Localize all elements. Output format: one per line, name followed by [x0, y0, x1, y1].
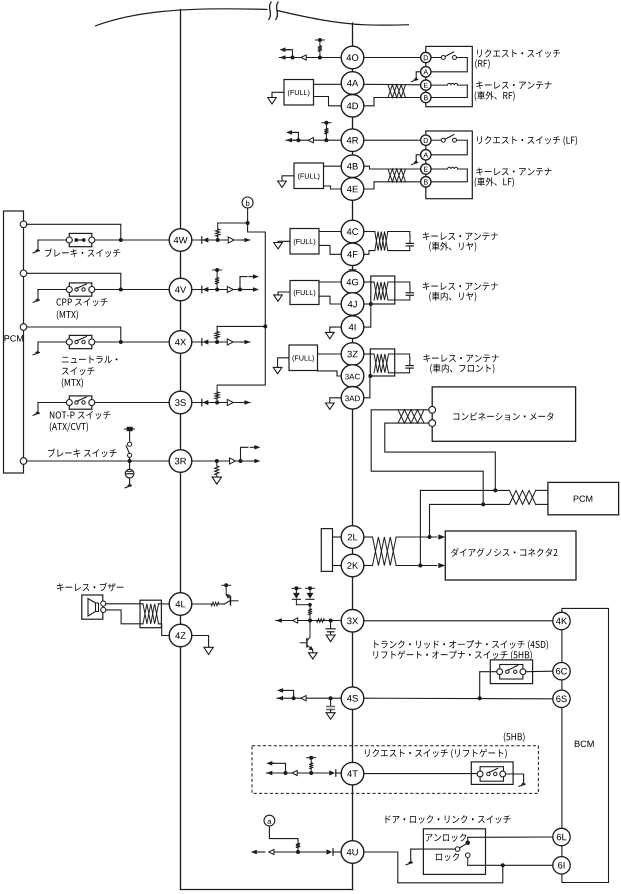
connector 3S: [169, 391, 192, 414]
wire meter top route: [371, 410, 483, 505]
wire left bus: [180, 10, 182, 890]
twisted pair interior front: [374, 354, 389, 373]
label 5HB: [504, 732, 525, 742]
wire 4R to D: [364, 139, 421, 141]
resistor 4W pull-up: [216, 238, 220, 242]
wire 4S to 6S: [364, 697, 553, 700]
connector 4B: [341, 155, 364, 178]
combination meter box: [432, 387, 575, 441]
antenna element 4G: [409, 282, 411, 285]
node a: [264, 815, 275, 826]
terminal D RF: [421, 52, 431, 62]
connector 6C: [553, 663, 570, 680]
opener switch contacts: [497, 669, 503, 675]
connector 3X: [341, 610, 364, 633]
wire FULL to 4A: [314, 83, 342, 85]
arrow 3X out: [276, 620, 279, 622]
ground request switch liftgate: [506, 774, 524, 782]
connector 3R: [169, 450, 192, 473]
stop lamp symbol: [129, 461, 131, 469]
connector 4L: [169, 593, 192, 616]
wire D internal RF: [431, 57, 441, 59]
wire FULL to 4G: [319, 281, 341, 283]
ground FULL 3Z: [278, 358, 289, 368]
wire harness top curve (left): [95, 9, 268, 26]
twisted pair rear antenna: [375, 232, 388, 251]
wire 4W internal: [192, 239, 250, 241]
diode 4W input: [201, 237, 203, 244]
wire PCM bottom: [430, 503, 510, 505]
connector 4O: [341, 46, 364, 69]
wire 4B to E: [364, 166, 421, 169]
arrow into diagnosis 2: [438, 563, 445, 568]
label brake switch: [45, 248, 120, 257]
wire E antenna loop LF: [431, 168, 448, 170]
shield stub A RF: [416, 72, 420, 78]
FULL box 4C: [290, 229, 319, 255]
switch blade door lock: [455, 847, 460, 852]
arrow 4V to BCM logic: [240, 289, 248, 291]
arrow 3R to BCM logic: [250, 460, 257, 462]
wire FULL to 4F: [319, 245, 341, 254]
unlock contact: [465, 841, 470, 846]
diode 4V input: [201, 286, 203, 293]
neutral switch: [69, 335, 92, 348]
wire 2L to diagnosis: [364, 536, 373, 538]
arrow 4S branch up: [292, 696, 296, 700]
connector 4X: [169, 331, 192, 354]
FULL box RF: [284, 80, 314, 106]
wire 4O to D: [364, 57, 421, 59]
wire unlock to 6L: [468, 836, 553, 838]
connector 4S: [341, 687, 364, 710]
resistor 4X pull-up: [215, 340, 219, 344]
label keyless antenna rear int: [423, 282, 498, 290]
wire 4A to E: [364, 83, 421, 86]
ground FULL 4G: [278, 292, 290, 295]
wire 4T to switch: [364, 773, 477, 775]
label door lock link switch: [386, 815, 511, 823]
terminal D LF: [421, 135, 431, 145]
wire 3S internal: [192, 402, 250, 404]
antenna coil RF: [448, 83, 451, 85]
ground neutral switch: [38, 341, 66, 343]
wire node a to 4U pull-up: [269, 826, 298, 843]
wire 3X to 4K: [364, 620, 553, 622]
buffer 4S: [301, 696, 306, 701]
resistor 4L drive: [192, 603, 211, 605]
wire FULL to 4J: [319, 296, 341, 304]
wire 2K riser: [419, 490, 421, 565]
wire PCM to neutral junction: [27, 327, 121, 342]
arrow 4W to BCM logic: [241, 239, 248, 241]
label request switch liftgate: [365, 749, 507, 759]
lock contact: [465, 853, 470, 858]
wire meter bottom route: [385, 423, 496, 491]
resistor 3X pull-up: [309, 615, 311, 621]
wire FULL to 4D: [314, 97, 342, 106]
diode 3S input: [201, 399, 203, 406]
wire lock to 6I: [468, 864, 553, 866]
wire bracket to 2K: [333, 565, 342, 567]
twisted pair RF antenna: [388, 85, 406, 98]
junction 3AC shield: [368, 374, 372, 378]
resistor 4V pull-up: [215, 288, 219, 292]
resistor 4U pull-up: [296, 843, 300, 848]
diode 4T output: [335, 770, 337, 777]
transistor 3X: [309, 621, 311, 638]
connector bracket 2L/2K: [321, 529, 332, 572]
shield box 3Z: [370, 349, 394, 376]
resistor 3S pull-up: [215, 401, 219, 405]
shield stub A LF: [416, 155, 420, 161]
antenna coil LF: [448, 167, 451, 169]
wire tick between 4F and 4G: [349, 269, 356, 271]
keyless buzzer box: [82, 595, 103, 619]
junction 3X cap: [329, 619, 333, 623]
power feed 4V: [213, 269, 222, 271]
wire 3R internal: [192, 460, 250, 462]
antenna element 4C: [409, 232, 411, 235]
buffer 4V: [227, 286, 233, 292]
wire 4W pull-up to node b line: [218, 222, 248, 224]
brake switch SW2 vertical: [129, 431, 131, 442]
wire NOT-P switch to 3S: [95, 402, 169, 404]
FULL box 4G: [290, 281, 319, 305]
cluster 4O: [280, 57, 342, 59]
wire 4Z to ground: [192, 636, 209, 648]
NOT-P switch: [69, 396, 92, 409]
wire PCM to brake switch junction: [27, 224, 121, 240]
twisted pair meter: [398, 410, 424, 423]
antenna element 3Z: [409, 354, 411, 357]
connector 4D: [341, 95, 364, 118]
arrow 4V branch up: [238, 288, 242, 292]
wire buzzer to coil top: [106, 603, 143, 605]
connector 4T: [341, 762, 364, 785]
terminal B RF: [421, 92, 431, 102]
connector 4K: [553, 612, 570, 629]
connector 6I: [553, 857, 570, 874]
wire 4V internal: [192, 289, 240, 291]
connector 2L: [341, 526, 364, 549]
wire 3AD to shield junction: [364, 376, 370, 398]
PCM terminal 1: [20, 221, 27, 228]
dashed box request liftgate: [252, 746, 538, 794]
arrow into diagnosis 1: [438, 534, 445, 539]
ground FULL LF: [282, 176, 294, 181]
request switch contacts RF: [441, 56, 445, 60]
connector 2K: [341, 554, 364, 577]
wire 3X internal: [276, 620, 341, 622]
PCM box right: [548, 482, 619, 514]
label combination meter: [453, 412, 553, 420]
label request switch LF: [477, 136, 577, 146]
connector 3AC: [341, 365, 364, 388]
BCM box: [562, 608, 609, 882]
request switch liftgate contacts: [477, 771, 483, 777]
diagnosis connector box: [445, 531, 576, 580]
twisted pair buzzer: [143, 604, 159, 624]
arrow 3S to BCM logic: [241, 402, 248, 404]
connector 4F: [341, 243, 364, 266]
terminal A RF: [421, 67, 431, 77]
shield box 4G: [371, 276, 395, 304]
twisted pair diagnosis: [373, 537, 397, 566]
power feed brake switch 2: [125, 428, 135, 430]
label neutral switch: [62, 356, 118, 364]
ground CPP switch: [38, 289, 66, 291]
wire brake switch to 4W: [95, 239, 169, 241]
connector 4W: [169, 229, 192, 252]
ground stop lamp: [129, 478, 131, 483]
component box keyless antenna/request switch RF: [426, 46, 473, 106]
connector 4R: [341, 129, 364, 152]
FULL box 3Z: [289, 345, 318, 371]
connector 4I: [341, 316, 364, 339]
terminal E RF: [421, 80, 431, 90]
wire 4C to coil: [364, 231, 375, 233]
wire CPP switch to 4V: [95, 289, 169, 291]
ground 3AD: [330, 398, 342, 403]
diode power 3X b: [306, 598, 314, 600]
wire 3Z to coil: [364, 353, 374, 355]
diode 4U output: [332, 849, 334, 856]
arrow 4X to BCM logic: [241, 341, 248, 343]
junction 3X: [308, 619, 312, 623]
connector 6S: [553, 690, 570, 707]
PCM connector box: [4, 211, 24, 473]
arrow 4S out: [277, 697, 280, 699]
label keyless buzzer: [57, 583, 124, 592]
terminal A LF: [421, 150, 431, 160]
buffer 4U: [269, 849, 274, 854]
wire 4U internal: [269, 851, 327, 853]
power feed 4T: [307, 757, 316, 759]
wire FULL to 4B: [324, 165, 342, 167]
capacitor 4S to ground: [330, 698, 332, 706]
buzzer terminal 2: [101, 607, 106, 612]
arrow 4U out: [254, 851, 265, 853]
resistor 3X series: [317, 619, 325, 622]
wire 4J: [364, 303, 371, 305]
wire FULL to 4C: [319, 231, 341, 233]
label request switch RF: [477, 49, 560, 57]
diode 4X input: [201, 339, 203, 346]
buffer 4T: [292, 770, 297, 775]
connector 3AD: [341, 387, 364, 410]
connector 4E: [341, 178, 364, 201]
wire harness top curve (right): [277, 11, 409, 26]
resistor 4T pull-up: [309, 771, 313, 775]
buffer 3S: [227, 399, 233, 405]
wire bottom connector: [181, 889, 353, 891]
wire 4I to shield junction: [364, 304, 371, 327]
wire 2L riser: [429, 504, 431, 537]
label keyless antenna LF: [476, 168, 551, 176]
label NOT-P switch: [50, 411, 111, 419]
wire antenna loop 3Z: [389, 353, 410, 355]
label BCM: [575, 741, 594, 748]
wire 2K to diagnosis: [364, 565, 373, 567]
label keyless antenna rear ext: [423, 232, 498, 240]
brake switch SW1: [69, 233, 92, 246]
label trunk lid opener: [374, 640, 548, 650]
wire FULL to 3Z: [318, 353, 342, 355]
wire antenna loop 4G: [388, 281, 410, 283]
wire 4G to coil: [364, 281, 374, 283]
connector 4C: [341, 220, 364, 243]
wire antenna loop 4C: [388, 231, 410, 233]
CPP switch: [69, 283, 92, 296]
connector 3Z: [341, 343, 364, 366]
wire opener to 6C: [526, 670, 553, 673]
wire D internal LF: [431, 139, 441, 141]
arrow 4T out: [266, 772, 269, 774]
request switch contacts LF: [441, 138, 445, 142]
PCM terminal 4: [20, 458, 27, 465]
arrow 4T branch up: [284, 771, 288, 775]
diode power 3X a: [292, 598, 300, 600]
connector 4G: [341, 271, 364, 294]
twisted pair LF antenna: [388, 169, 406, 182]
wire 4X internal: [192, 341, 250, 343]
cluster 4R: [286, 139, 341, 141]
transistor 4L driver: [225, 601, 230, 604]
node b: [242, 197, 253, 208]
ground brake switch: [38, 239, 66, 241]
wire 4F to coil: [364, 251, 375, 255]
PCM terminal 3: [20, 324, 27, 331]
arrow 3R branch up: [239, 459, 243, 463]
wire right bus: [352, 23, 354, 890]
wire coil to 4L: [159, 603, 170, 605]
buzzer terminal 1: [101, 601, 106, 606]
connector 4A: [341, 72, 364, 95]
power feed 4L: [222, 584, 231, 586]
connector 4J: [341, 293, 364, 316]
twisted pair interior rear: [374, 282, 388, 300]
wire buzzer to coil bottom: [106, 610, 143, 624]
wire E antenna loop RF: [431, 84, 448, 86]
wire node b vertical: [247, 208, 249, 223]
component box keyless antenna/request switch LF: [426, 131, 473, 199]
connector 4U: [341, 841, 364, 864]
junction 4J shield: [369, 302, 373, 306]
label keyless antenna front int: [423, 354, 498, 362]
wire FULL to 3AC: [318, 371, 343, 376]
label CPP switch: [56, 298, 107, 306]
buzzer speaker symbol: [88, 599, 96, 617]
meter terminal 1: [429, 406, 436, 413]
junction 4S cap: [329, 696, 333, 700]
terminal E LF: [421, 164, 431, 174]
wire 4S internal: [278, 697, 341, 699]
wire PCM top: [420, 489, 509, 491]
label brake switch 2: [48, 448, 116, 457]
door lock link switch box: [423, 829, 485, 875]
meter terminal 2: [429, 420, 436, 427]
PCM terminal 2: [20, 270, 27, 277]
shield box buzzer: [140, 600, 161, 628]
power feed 3X b: [306, 587, 315, 589]
wire opener to 4S wire: [480, 672, 497, 699]
wire twisted to PCM box: [536, 489, 548, 491]
ground FULL RF: [272, 92, 284, 97]
wire coil to 4Z: [159, 624, 170, 636]
wire 3X diode branch: [296, 604, 310, 606]
buffer 4X: [227, 339, 233, 345]
ground FULL 4C: [278, 241, 290, 242]
wire 4T internal: [269, 772, 330, 774]
wire FULL to 4E: [324, 186, 342, 189]
connector 6L: [553, 828, 570, 845]
label keyless antenna RF: [476, 81, 551, 89]
connector 4V: [169, 278, 192, 301]
request switch liftgate box: [471, 762, 513, 785]
opener switch box: [490, 660, 532, 684]
terminal B LF: [421, 177, 431, 187]
ground 3R pull-down: [212, 477, 221, 484]
connector 4Z: [169, 624, 192, 647]
label liftgate opener: [373, 650, 531, 660]
FULL box LF: [294, 163, 324, 189]
label unlock: [426, 833, 467, 841]
power feed 3X a: [292, 587, 301, 589]
label lock: [436, 853, 459, 861]
twisted pair PCM: [509, 490, 535, 504]
wire 4E to B: [364, 182, 421, 189]
break mark: [269, 2, 279, 21]
ground 4Z: [204, 647, 213, 654]
buffer 3X: [293, 618, 298, 623]
wire 4U to 6I junction: [364, 852, 503, 883]
wire bracket to 2L: [333, 536, 342, 538]
wire 4D to B: [364, 98, 421, 106]
ground 4I: [330, 327, 342, 332]
capacitor 3X to ground: [330, 621, 332, 629]
resistor 3R pull-down: [215, 459, 219, 463]
wire common to ground: [411, 849, 456, 860]
wire neutral switch to 4X: [95, 341, 169, 343]
buffer 4W: [228, 237, 234, 243]
ground NOT-P switch: [38, 402, 66, 404]
ground transistor 3X: [309, 653, 318, 659]
buffer 3R: [230, 458, 236, 464]
wire PCM to 3R: [27, 460, 169, 462]
wire PCM to CPP junction: [27, 273, 121, 289]
label diagnosis connector: [451, 548, 557, 557]
